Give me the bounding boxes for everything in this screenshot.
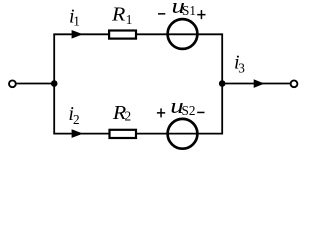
current arrow i1: [72, 30, 83, 39]
minus sign of U_S2: [197, 112, 204, 114]
terminal right: [291, 80, 298, 87]
svg-text:S2: S2: [182, 103, 196, 118]
label R2: [112, 101, 127, 124]
node right junction: [219, 80, 226, 87]
svg-text:1: 1: [126, 12, 133, 27]
plus sign of U_S2: [157, 108, 165, 117]
plus sign of U_S1: [197, 10, 205, 19]
svg-text:R: R: [111, 2, 126, 25]
svg-text:3: 3: [238, 60, 245, 75]
svg-text:S1: S1: [182, 3, 196, 18]
wire left middle: [16, 83, 54, 85]
current arrow i3: [254, 79, 265, 88]
wire bottom branch: [53, 133, 223, 135]
wire right vertical: [221, 34, 223, 135]
label R1: [111, 2, 126, 25]
wire right middle: [222, 83, 290, 85]
terminal left: [9, 80, 16, 87]
minus sign of U_S1: [158, 13, 165, 15]
wire left vertical: [53, 34, 55, 135]
resistor R2: [110, 130, 137, 138]
svg-text:2: 2: [73, 112, 80, 127]
label u_S1: [172, 0, 185, 18]
source U_S2: [168, 119, 198, 149]
source U_S1: [168, 19, 198, 49]
label u_S2: [170, 94, 183, 118]
current arrow i2: [72, 129, 84, 138]
svg-text:1: 1: [73, 13, 80, 28]
node left junction: [51, 80, 58, 87]
resistor R1: [109, 31, 136, 39]
wire top branch: [53, 33, 223, 35]
svg-text:2: 2: [125, 109, 132, 124]
